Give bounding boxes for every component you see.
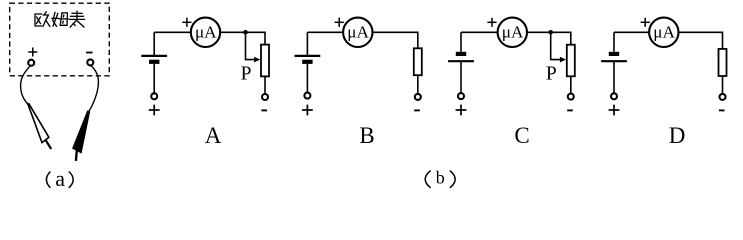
wire: resistor bottom to right terminal (B)	[417, 75, 419, 93]
battery cell (B)	[295, 56, 321, 64]
left terminal (D)	[611, 93, 617, 99]
wire: bus to ammeter (B)	[307, 31, 343, 33]
potentiometer wiper arrow P (C)	[551, 32, 566, 62]
battery cell (A)	[141, 56, 167, 64]
right terminal (A)	[262, 94, 268, 100]
left test probe (outlined)	[28, 104, 51, 149]
caption (b)	[425, 168, 455, 188]
caption (a)	[46, 166, 73, 191]
svg-text:D: D	[669, 123, 686, 148]
wire: resistor bottom to right terminal (C)	[570, 76, 572, 93]
wire: ammeter to resistor top (D)	[679, 32, 723, 49]
left terminal (B)	[304, 93, 310, 99]
right probe wire	[89, 66, 99, 112]
wire: resistor bottom to right terminal (D)	[722, 76, 724, 94]
wire: battery bottom to left terminal (D)	[613, 62, 615, 93]
wire: battery bottom to left terminal (B)	[306, 64, 308, 92]
right terminal (B)	[415, 94, 421, 100]
svg-text:C: C	[514, 123, 529, 148]
wire: bus to ammeter (D)	[614, 31, 649, 33]
left terminal + sign (B)	[302, 109, 313, 111]
resistor (D)	[719, 49, 727, 76]
svg-text:μA: μA	[347, 23, 369, 42]
ammeter + polarity sign (C)	[487, 21, 496, 23]
svg-text:P: P	[546, 63, 557, 84]
resistor (B)	[414, 48, 422, 75]
wire: battery top to horizontal bus (C)	[460, 32, 462, 52]
junction node (C)	[548, 30, 553, 35]
left terminal + sign (D)	[609, 109, 620, 111]
wire: battery top to horizontal bus (D)	[613, 32, 615, 52]
ohmmeter + terminal sign	[28, 51, 37, 53]
microammeter uA (D)	[649, 18, 678, 47]
ammeter + polarity sign (D)	[641, 21, 650, 23]
battery cell (D)	[601, 52, 627, 61]
wire: battery bottom to left terminal (A)	[153, 64, 155, 93]
right terminal - sign (C)	[567, 109, 573, 111]
right terminal - sign (B)	[414, 109, 420, 111]
svg-text:a: a	[55, 166, 65, 191]
wire: battery top to horizontal bus (B)	[306, 32, 308, 55]
left probe wire	[21, 66, 31, 105]
ohmmeter dashed enclosure	[10, 3, 110, 76]
ohmmeter - terminal sign	[86, 52, 92, 54]
svg-text:μA: μA	[653, 23, 675, 42]
svg-text:P: P	[241, 63, 252, 84]
ohmmeter left terminal	[28, 60, 34, 66]
wire: bus to ammeter (A)	[154, 31, 191, 33]
wire: ammeter to resistor top (B)	[373, 32, 418, 48]
left terminal (A)	[151, 93, 157, 99]
resistor (A)	[261, 45, 269, 77]
right terminal (C)	[568, 94, 574, 100]
potentiometer wiper arrow P (A)	[246, 32, 261, 62]
resistor (C)	[567, 45, 575, 77]
microammeter uA (A)	[191, 18, 220, 47]
junction node (A)	[243, 30, 248, 35]
right terminal (D)	[720, 94, 726, 100]
ammeter + polarity sign (A)	[182, 21, 191, 23]
svg-text:B: B	[359, 123, 374, 148]
ammeter + polarity sign (B)	[335, 21, 344, 23]
svg-text:μA: μA	[502, 23, 524, 42]
left terminal + sign (C)	[456, 109, 467, 111]
label 欧姆表 (ohmmeter)	[35, 11, 85, 27]
wire: ammeter to resistor top (A)	[220, 32, 265, 44]
wire: battery bottom to left terminal (C)	[460, 62, 462, 93]
right terminal - sign (D)	[719, 109, 725, 111]
wire: resistor bottom to right terminal (A)	[264, 76, 266, 93]
svg-text:b: b	[436, 168, 445, 188]
right test probe (filled)	[73, 111, 90, 161]
svg-text:A: A	[205, 123, 222, 148]
battery cell (C)	[448, 52, 474, 61]
wire: bus to ammeter (C)	[461, 31, 498, 33]
left terminal + sign (A)	[149, 109, 160, 111]
svg-text:μA: μA	[195, 23, 217, 42]
microammeter uA (C)	[498, 18, 527, 47]
microammeter uA (B)	[343, 18, 372, 47]
wire: ammeter to resistor top (C)	[527, 32, 571, 44]
wire: battery top to horizontal bus (A)	[153, 32, 155, 55]
left terminal (C)	[458, 93, 464, 99]
ohmmeter right terminal	[87, 59, 93, 65]
right terminal - sign (A)	[261, 109, 267, 111]
